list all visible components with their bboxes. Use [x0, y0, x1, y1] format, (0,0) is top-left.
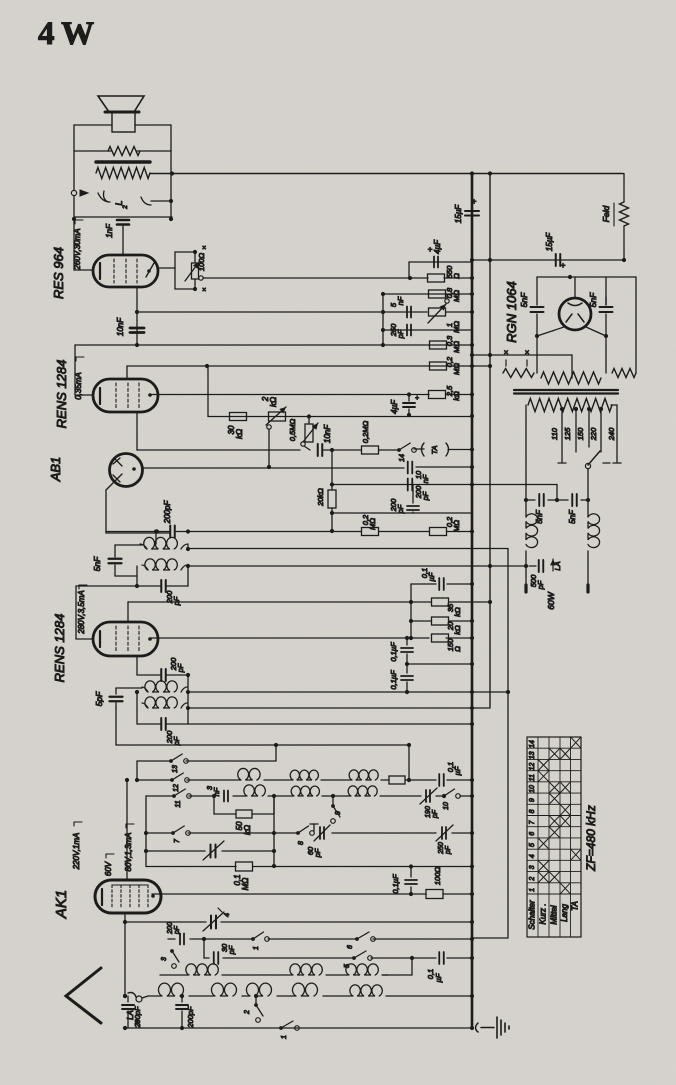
wire HV center tap [571, 372, 573, 378]
resistor band [389, 776, 405, 784]
wire x125 lower [123, 922, 127, 998]
wire y513 row [332, 512, 472, 514]
capacitor 200pF a [408, 479, 430, 502]
svg-text:pF: pF [227, 945, 236, 955]
svg-text:nF: nF [396, 296, 405, 305]
terminal antenna plug [128, 993, 148, 1003]
lamp taps [504, 348, 530, 366]
svg-text:9: 9 [335, 811, 342, 815]
svg-text:4 W: 4 W [38, 16, 94, 52]
svg-text:nF: nF [421, 474, 430, 483]
wire hook b to x171 [151, 200, 171, 202]
switch 13 [169, 754, 188, 773]
svg-text:kΩ: kΩ [453, 625, 462, 635]
wire y450 TA row [322, 449, 424, 450]
label RES 964 [51, 247, 66, 299]
contact L2 hook a [98, 191, 110, 202]
wire y996 antenna row [148, 994, 474, 998]
svg-text:0,1µF: 0,1µF [389, 642, 398, 662]
capacitor 200pF ant2 [176, 994, 195, 1029]
tube RGN1064 internals [566, 303, 584, 322]
node L2 label [114, 200, 129, 209]
coil band b3 [348, 786, 377, 796]
label ZF 480kHz [584, 805, 598, 872]
svg-text:4µF: 4µF [390, 399, 399, 414]
potentiometer 1Mohm [428, 294, 461, 333]
capacitor 0.1uF c [389, 664, 413, 694]
wire y584 cap row [411, 582, 474, 586]
coil IF1 primary [140, 537, 188, 549]
trimmer tuning C4a [203, 841, 224, 860]
wire y621 row [409, 619, 474, 623]
svg-text:200pF: 200pF [133, 1006, 142, 1029]
wire y780 row [137, 778, 474, 782]
coil band a1 [238, 768, 260, 780]
label LA ant [126, 1010, 140, 1024]
capacitor 5pF if2 [94, 688, 142, 708]
svg-text:11: 11 [175, 800, 182, 807]
resistor 35kohm [432, 598, 493, 617]
svg-text:5nF: 5nF [92, 556, 102, 571]
wire y312 row [137, 310, 474, 314]
rheostat 100ohm [185, 245, 206, 294]
loudspeaker LS [98, 96, 144, 132]
svg-text:MΩ: MΩ [452, 520, 461, 532]
tube AB1 envelope [110, 454, 143, 487]
svg-text:8: 8 [298, 841, 305, 845]
label 240 [607, 427, 616, 441]
resistor 0.2Mohm c [361, 514, 379, 536]
wire x411 bracket [410, 584, 412, 638]
capacitor 0.1uF b [389, 636, 413, 664]
svg-text:LA: LA [553, 561, 562, 570]
wire wiper row y278 [199, 276, 428, 280]
tube AB1 internals [113, 458, 136, 482]
svg-text:3: 3 [529, 865, 536, 869]
switch 11 [172, 789, 191, 808]
wire y724 long [188, 722, 474, 726]
svg-text:100Ω: 100Ω [433, 867, 442, 886]
wire mains pin R [586, 585, 589, 592]
svg-text:6: 6 [529, 832, 536, 836]
svg-text:MΩ: MΩ [368, 518, 377, 530]
label 0.35mA [74, 357, 84, 400]
wire speaker loop [74, 125, 171, 151]
wire IF1 sec right [186, 564, 190, 586]
svg-text:µF: µF [427, 572, 436, 581]
svg-text:pF: pF [174, 925, 181, 935]
resistor 20kohm b [432, 617, 463, 635]
wire RENS1284-1 left [75, 345, 93, 395]
svg-text:6: 6 [347, 945, 354, 949]
tube RENS1284-2 internals [100, 626, 152, 651]
wire y602 right [411, 601, 431, 603]
switch 5 [344, 951, 372, 968]
wire IF1 prim top [154, 529, 158, 544]
wire x409 riser [408, 745, 410, 779]
resistor 50kohm loop [212, 794, 276, 835]
label 110 [550, 427, 559, 440]
wire y366 row [127, 364, 492, 368]
coil osc3 [346, 964, 378, 975]
svg-text:5nF: 5nF [588, 292, 598, 307]
switch 1 [279, 1021, 299, 1039]
wire IF1 bottom loop [137, 566, 188, 586]
wire IF2 bottom loop [135, 690, 188, 724]
wire top rail y174 [150, 171, 623, 175]
capacitor 200pF if2b [161, 718, 181, 746]
resistor 0.2Mohm d [430, 516, 462, 536]
potentiometer 0.5Mohm [288, 414, 318, 442]
capacitor 0.1uF f [426, 952, 444, 982]
coil osc2 [290, 964, 322, 975]
wire 100ohm loop [175, 250, 197, 291]
wire rail x490 [489, 174, 491, 708]
switch 2 [244, 994, 263, 1022]
svg-text:0,1µF: 0,1µF [389, 670, 398, 690]
coil band b1 [244, 785, 265, 796]
label 60W [546, 591, 556, 609]
svg-text:+: + [472, 197, 477, 206]
wire x137 stub [135, 761, 139, 782]
wire y484 psu [472, 485, 559, 503]
wire x332 riser [331, 450, 333, 490]
tube AK1 envelope [95, 880, 161, 913]
svg-text:kΩ: kΩ [235, 429, 244, 439]
resistor 100ohm AK1 [426, 867, 443, 899]
svg-text:pF: pF [396, 329, 405, 339]
wire right loop x171 [169, 151, 173, 221]
svg-text:200pF: 200pF [186, 1006, 195, 1029]
capacitor 10nF agc [318, 424, 334, 456]
winding dial lamp [503, 369, 534, 378]
svg-text:4µF: 4µF [433, 239, 442, 254]
capacitor 5nF rgn left [519, 292, 544, 338]
tube RES964 internals [100, 259, 154, 283]
capacitor 15uF rail [454, 197, 479, 223]
tube RENS1284-1 internals [100, 383, 152, 408]
tube RENS1284-1 envelope [93, 379, 158, 412]
svg-text:Feld: Feld [601, 205, 611, 222]
switch 9 [331, 794, 342, 823]
wire y866 row [146, 864, 474, 868]
svg-text:Ω: Ω [453, 646, 462, 652]
wire RENS1284-2 cathode [136, 656, 138, 675]
wire RES964 cathode left [74, 219, 93, 270]
svg-text:5nF: 5nF [568, 509, 577, 524]
tube RGN1064 envelope [559, 298, 591, 330]
svg-text:Mittel: Mittel [550, 905, 559, 924]
switch 3 [161, 949, 179, 968]
wire y851 row [146, 849, 276, 853]
svg-text:2: 2 [244, 1010, 251, 1015]
wire 0.5M wiper [301, 442, 310, 450]
svg-text:L: L [114, 200, 124, 205]
svg-text:14: 14 [399, 454, 406, 462]
svg-text:kΩ: kΩ [452, 391, 461, 401]
wire y355 psu feed [470, 353, 572, 372]
wire y586 left [76, 584, 139, 639]
wire RENS1284-2 anode y638 [150, 636, 474, 640]
coil band b2 [291, 786, 319, 796]
svg-text:5nF: 5nF [519, 292, 529, 307]
svg-text:15µF: 15µF [454, 204, 463, 224]
resistor 0.8Mohm [429, 287, 462, 302]
wire mains right end [611, 405, 617, 462]
coil band a2 [290, 770, 318, 780]
label 150 [576, 427, 585, 440]
wire x383 riser [381, 294, 385, 345]
svg-text:pF: pF [396, 504, 405, 514]
svg-text:12: 12 [529, 763, 536, 771]
wire AK1 cathode [123, 913, 127, 924]
capacitor 5nF if1 [92, 545, 142, 576]
svg-text:+: + [561, 261, 566, 270]
switch 10 [442, 789, 460, 810]
svg-text:×: × [504, 348, 509, 357]
wire x274 riser [272, 796, 276, 868]
wire y708 long [188, 706, 490, 710]
svg-text:1: 1 [253, 946, 260, 950]
wire IF1 prim right [186, 545, 190, 551]
table band switch [527, 737, 581, 937]
svg-text:100Ω: 100Ω [197, 253, 206, 272]
coil ant1 [158, 983, 183, 996]
trimmer 60pF [306, 825, 330, 858]
wire x160 stub [0, 0, 1, 1]
resistor Feld field coil [601, 174, 629, 260]
capacitor 30pF [214, 943, 236, 964]
svg-text:×: × [525, 348, 530, 357]
ground symbol [476, 1017, 510, 1038]
wire x188 if2 [186, 673, 190, 724]
svg-text:pF: pF [536, 580, 545, 590]
svg-text:pF: pF [421, 491, 430, 501]
svg-text:kΩ: kΩ [453, 607, 462, 617]
svg-text:10: 10 [443, 802, 450, 810]
resistor T1 primary winding [96, 168, 150, 179]
wire y602 grid row [128, 600, 413, 604]
label 60V [104, 854, 114, 876]
svg-text:12: 12 [173, 784, 180, 792]
svg-text:13: 13 [529, 751, 536, 759]
svg-text:1nF: 1nF [105, 223, 114, 238]
capacitor 250pF [389, 323, 411, 339]
svg-text:20kΩ: 20kΩ [316, 488, 325, 507]
coil band a3 [349, 770, 378, 780]
switch 6 [347, 932, 375, 949]
svg-text:0,5MΩ: 0,5MΩ [288, 419, 297, 442]
svg-text:MΩ: MΩ [241, 878, 250, 891]
capacitor 200pF b [389, 485, 419, 515]
svg-text:10nF: 10nF [323, 424, 332, 443]
svg-text:14: 14 [529, 740, 536, 748]
svg-text:200pF: 200pF [163, 500, 172, 525]
wire y692 long [188, 690, 510, 694]
svg-text:8: 8 [529, 809, 536, 813]
wire osc to riser [383, 958, 412, 975]
svg-text:200: 200 [167, 922, 174, 935]
tube RENS1284-2 envelope [93, 622, 158, 656]
wire y958 row [204, 956, 474, 960]
coil ant4 [292, 983, 317, 996]
svg-text:220: 220 [589, 427, 598, 441]
svg-text:60W: 60W [546, 591, 556, 609]
capacitor 1nF [105, 220, 129, 238]
capacitor 5nF coupling [389, 296, 411, 317]
svg-text:MΩ: MΩ [452, 341, 461, 353]
svg-text:2: 2 [122, 205, 129, 210]
wire AB1 cathode [106, 482, 169, 533]
svg-text:µF: µF [453, 766, 462, 775]
wire x332 lower [330, 508, 334, 533]
wire y975 osc row [160, 974, 388, 976]
svg-text:Kurz .: Kurz . [539, 904, 548, 925]
svg-text:1: 1 [281, 1035, 288, 1039]
capacitor 5nF mains b [568, 494, 577, 524]
coil ant3 [246, 983, 271, 996]
svg-text:5: 5 [529, 843, 536, 847]
capacitor 4uF top [428, 239, 442, 268]
wire B+ rail x472 [471, 174, 474, 1028]
resistor 0.3Mohm [430, 335, 462, 353]
capacitor 0.1uF a [420, 568, 444, 590]
capacitor 10nF det [408, 462, 430, 484]
wire RES964 grid bottom [135, 287, 139, 347]
terminal output jack [71, 190, 88, 196]
wire 5pF to y745 [115, 708, 117, 745]
capacitor 200pF if1 [161, 580, 181, 606]
wire 2k wiper [267, 425, 271, 469]
antenna A [66, 968, 101, 1023]
capacitor 5nF rgn right [588, 292, 613, 338]
wire x276 stub [275, 745, 277, 761]
wire y531 row [106, 529, 474, 533]
capacitor 3nF [205, 785, 228, 801]
wire y330 row [383, 329, 472, 331]
wire y922 row [125, 920, 474, 924]
svg-text:TA: TA [571, 901, 580, 911]
wire left loop x74 [72, 151, 76, 221]
wire RENS1284-1 grid [126, 366, 128, 379]
capacitor 200pF ant1 [122, 996, 142, 1029]
resistor voice coil [108, 147, 140, 156]
svg-text:13: 13 [172, 765, 179, 773]
wire y939 row [168, 937, 474, 941]
wire y500 row [524, 498, 588, 502]
wire x508 riser [507, 549, 509, 938]
label RENS 1284 first [54, 360, 69, 429]
label 280V 3.5mA [77, 585, 87, 635]
wire y394 anode row [150, 392, 474, 396]
svg-text:280V,3,5mA: 280V,3,5mA [77, 590, 86, 634]
resistor 2.5kohm [429, 385, 462, 401]
wire RES964 anode [158, 267, 175, 269]
wire y745 row [116, 743, 411, 747]
svg-text:0,2MΩ: 0,2MΩ [361, 421, 370, 444]
label RENS 1284 second [52, 614, 67, 683]
svg-text:110: 110 [550, 427, 559, 440]
coil ant5 [350, 985, 382, 996]
svg-text:RGN 1064: RGN 1064 [504, 281, 519, 342]
svg-text:MΩ: MΩ [452, 321, 461, 333]
svg-text:pF: pF [176, 663, 185, 673]
svg-text:RENS 1284: RENS 1284 [52, 614, 67, 683]
winding mains primary [528, 399, 612, 412]
wire AK1 grid lead [125, 778, 129, 880]
jack TA [422, 443, 475, 456]
wire y664 row [405, 662, 474, 666]
svg-text:3: 3 [161, 957, 168, 961]
label RGN 1064 [504, 281, 519, 342]
trimmer tuning C4b [203, 908, 231, 931]
tube RES964 envelope [93, 255, 158, 287]
capacitor 10nF anode [116, 317, 144, 336]
capacitor 4uF cathode [390, 395, 419, 416]
svg-text:ZF=480 kHz: ZF=480 kHz [584, 805, 598, 872]
capacitor 5nF mains a [535, 494, 544, 524]
wire selector down [586, 469, 590, 502]
svg-text:60V: 60V [104, 861, 113, 876]
wire RENS1284-1 cathode [137, 412, 300, 450]
wire RENS1284-2 grid [127, 602, 129, 622]
svg-text:1: 1 [529, 888, 536, 892]
wire y345 row [75, 343, 474, 347]
svg-text:×: × [202, 245, 206, 252]
svg-text:5pF: 5pF [94, 691, 104, 706]
svg-text:MΩ: MΩ [452, 363, 461, 375]
resistor 30kohm [227, 413, 247, 440]
coil mains choke L [524, 500, 538, 568]
coil IF2 secondary [142, 697, 187, 708]
svg-text:Ω: Ω [452, 273, 461, 279]
svg-text:220V,1mA: 220V,1mA [72, 833, 81, 871]
wire y484 row [330, 482, 474, 486]
wire y294 row [381, 292, 474, 296]
coil IF2 primary [142, 681, 187, 692]
svg-text:190: 190 [425, 806, 432, 818]
resistor 0.2Mohm a [430, 356, 462, 375]
switch 14 [397, 443, 416, 462]
switch 8 [296, 824, 318, 845]
svg-text:Lang: Lang [560, 904, 569, 922]
svg-text:pF: pF [432, 809, 439, 819]
switch 1b [251, 932, 269, 950]
coil ant2 [211, 983, 236, 996]
svg-text:9: 9 [529, 798, 536, 802]
wire y548 long [188, 548, 508, 550]
svg-text:11: 11 [529, 774, 536, 781]
svg-text:0,1µF: 0,1µF [391, 874, 400, 894]
svg-text:150: 150 [576, 427, 585, 440]
coil osc1 [186, 964, 218, 975]
label 260V 30mA [73, 220, 83, 271]
wire y796 row [146, 794, 474, 798]
winding rectifier heater [541, 372, 601, 384]
resistor 0.2Mohm b [361, 421, 379, 454]
capacitor 0.1uF d [439, 762, 462, 786]
svg-text:pF: pF [172, 596, 181, 606]
wire y262 550 feed [409, 262, 472, 278]
svg-text:10nF: 10nF [116, 317, 125, 336]
svg-text:µF: µF [434, 973, 443, 982]
wire x125 caps [123, 994, 127, 998]
capacitor 200pF c [163, 500, 190, 538]
resistor 550ohm [428, 265, 475, 282]
coil mains choke R [588, 500, 600, 585]
svg-text:15µF: 15µF [545, 232, 554, 252]
label 125 [563, 427, 572, 440]
